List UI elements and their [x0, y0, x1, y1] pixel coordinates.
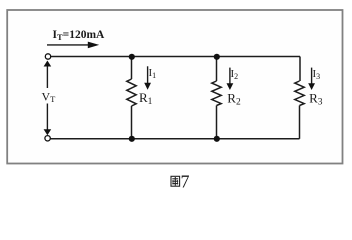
svg-text:7: 7	[181, 172, 190, 192]
